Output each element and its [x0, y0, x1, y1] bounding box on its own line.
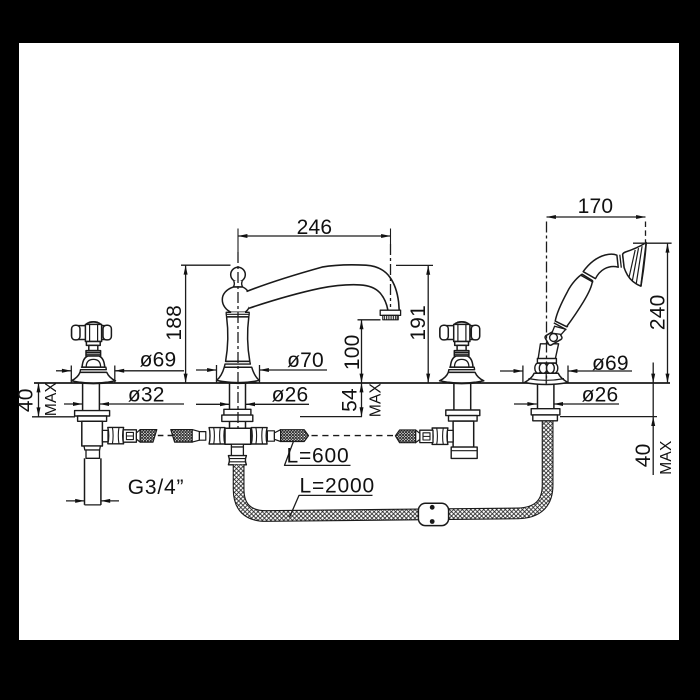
shower hose L2000 outline [239, 421, 548, 516]
grip lower joint rings [554, 320, 568, 330]
deck underside reference line right [560, 416, 657, 418]
right hose braid [395, 430, 415, 443]
svg-text:100: 100 [341, 334, 364, 370]
spout ball finial [231, 267, 246, 282]
left hose end cylinder [199, 432, 205, 441]
svg-text:ø32: ø32 [128, 384, 165, 407]
left hose braid segment B [171, 430, 192, 443]
dimension 40 MAX left [37, 383, 41, 417]
right valve shank below deck [454, 383, 471, 410]
right hose cone [416, 430, 420, 443]
spout shank below deck [230, 383, 246, 409]
spout locknut [222, 415, 253, 421]
svg-text:246: 246 [297, 216, 333, 239]
right valve side outlet stub [447, 430, 453, 442]
holder locknut [533, 415, 558, 421]
svg-text:240: 240 [646, 294, 669, 330]
svg-text:MAX: MAX [43, 381, 60, 416]
spout arm top outline [247, 265, 400, 310]
shower head face [641, 243, 646, 287]
spout flare rings [224, 361, 251, 367]
dimension G3/4 [66, 499, 119, 503]
right valve washer [446, 410, 480, 416]
dimension 100 [358, 320, 381, 383]
dimension dia70 [196, 365, 327, 383]
right valve hose olive adapter [420, 430, 433, 442]
dimension 40 MAX right [651, 363, 655, 476]
tee body [225, 428, 251, 444]
spout aerator ring [380, 310, 400, 315]
right valve outlet hex nut [432, 428, 448, 444]
spout base trumpet [217, 367, 260, 382]
tee bottom pipe [231, 447, 243, 456]
left hose braid segment A [140, 430, 157, 443]
dimension 188 [181, 265, 231, 383]
svg-text:MAX: MAX [368, 382, 385, 417]
grip upper joint rings [581, 272, 596, 283]
holder flange [524, 373, 568, 384]
holder beaded ring [535, 363, 558, 373]
svg-text:188: 188 [163, 305, 186, 341]
svg-text:54: 54 [339, 388, 362, 412]
deck underside reference line left [32, 416, 75, 418]
handshower unit [524, 243, 646, 385]
shower head extension dashed [645, 222, 647, 243]
dimension dia26 right [514, 402, 619, 406]
spout bulb body [222, 287, 251, 312]
svg-text:L=2000: L=2000 [300, 474, 375, 497]
tee right braid [281, 430, 309, 442]
tee left hex nut [209, 428, 225, 444]
left valve adapter block [86, 450, 100, 458]
left valve cross handle [71, 322, 115, 384]
tee bottom hex nut [228, 456, 246, 465]
shower head rim bands [629, 246, 642, 283]
spout washer [224, 409, 251, 415]
spout arm bottom outline [249, 285, 388, 310]
hose break dashes center [312, 435, 394, 437]
left valve outlet hex nut [108, 427, 124, 443]
tee right cone [274, 430, 280, 442]
left valve G3/4 tailpipe [85, 458, 101, 505]
left valve body [82, 421, 103, 446]
left valve reducer [84, 446, 100, 450]
svg-text:ø26: ø26 [272, 384, 309, 407]
svg-text:ø69: ø69 [592, 352, 629, 375]
dimension 191 [396, 265, 433, 383]
shower hose L2000 braid [239, 421, 548, 516]
svg-text:L=600: L=600 [287, 445, 350, 468]
dimension dia26 center [196, 402, 309, 406]
spout neck [233, 281, 242, 287]
tee right adapter [267, 431, 274, 441]
left valve locknut [78, 416, 107, 421]
spout arm filled body [247, 265, 400, 310]
dimension dia32 [64, 402, 184, 406]
tee right hex nut [251, 428, 267, 444]
svg-text:40: 40 [632, 444, 655, 468]
hose break dashes left [158, 435, 174, 437]
left valve hose olive adapter [123, 430, 136, 442]
holder cone [538, 344, 558, 359]
dimension 240 [633, 243, 672, 383]
right valve body [453, 421, 474, 447]
spout centerline [237, 229, 239, 253]
deck mounting surface line [34, 382, 670, 384]
dimension dia69 right [500, 366, 632, 383]
holder centerline [546, 222, 548, 383]
spout outlet centerline [390, 229, 392, 245]
left hose end cone [192, 430, 199, 443]
svg-text:G3/4”: G3/4” [128, 476, 185, 499]
left valve side outlet stub [102, 430, 108, 441]
spout column taper [226, 317, 250, 362]
svg-text:ø69: ø69 [140, 349, 177, 372]
right valve cross handle [440, 322, 484, 384]
svg-text:ø70: ø70 [287, 349, 324, 372]
dimension 170 [547, 215, 646, 219]
bend tube to head [583, 254, 618, 278]
grip lower taper [552, 326, 566, 334]
leader L=600 [285, 442, 351, 466]
tee bottom stub [231, 444, 243, 447]
spout aerator knurl [383, 315, 398, 319]
shower head bell [623, 243, 647, 287]
dimension 54 [360, 383, 364, 417]
deck underside reference line center [300, 416, 362, 418]
svg-text:MAX: MAX [658, 440, 675, 475]
spout column [217, 265, 401, 384]
left hose cone [136, 430, 140, 443]
swivel ball joint [544, 329, 562, 346]
dimension 246 [238, 234, 391, 238]
hose slide weight [418, 503, 448, 525]
right valve locknut [449, 416, 478, 422]
svg-text:ø26: ø26 [582, 384, 619, 407]
spout collar ring [226, 312, 249, 317]
handshower holder shank below deck [538, 383, 554, 409]
left valve shank below deck [83, 383, 100, 411]
leader L=2000 [290, 495, 373, 517]
grip body [555, 274, 592, 327]
head neck rings [620, 254, 624, 268]
svg-text:170: 170 [578, 195, 614, 218]
holder cuff [537, 358, 556, 363]
left valve washer [75, 411, 110, 416]
dimension dia69 left [56, 366, 184, 383]
holder washer [531, 409, 560, 415]
svg-text:191: 191 [407, 305, 430, 341]
right valve bottom cup [451, 447, 477, 458]
spout shank lower [230, 421, 246, 428]
svg-text:40: 40 [15, 388, 38, 412]
